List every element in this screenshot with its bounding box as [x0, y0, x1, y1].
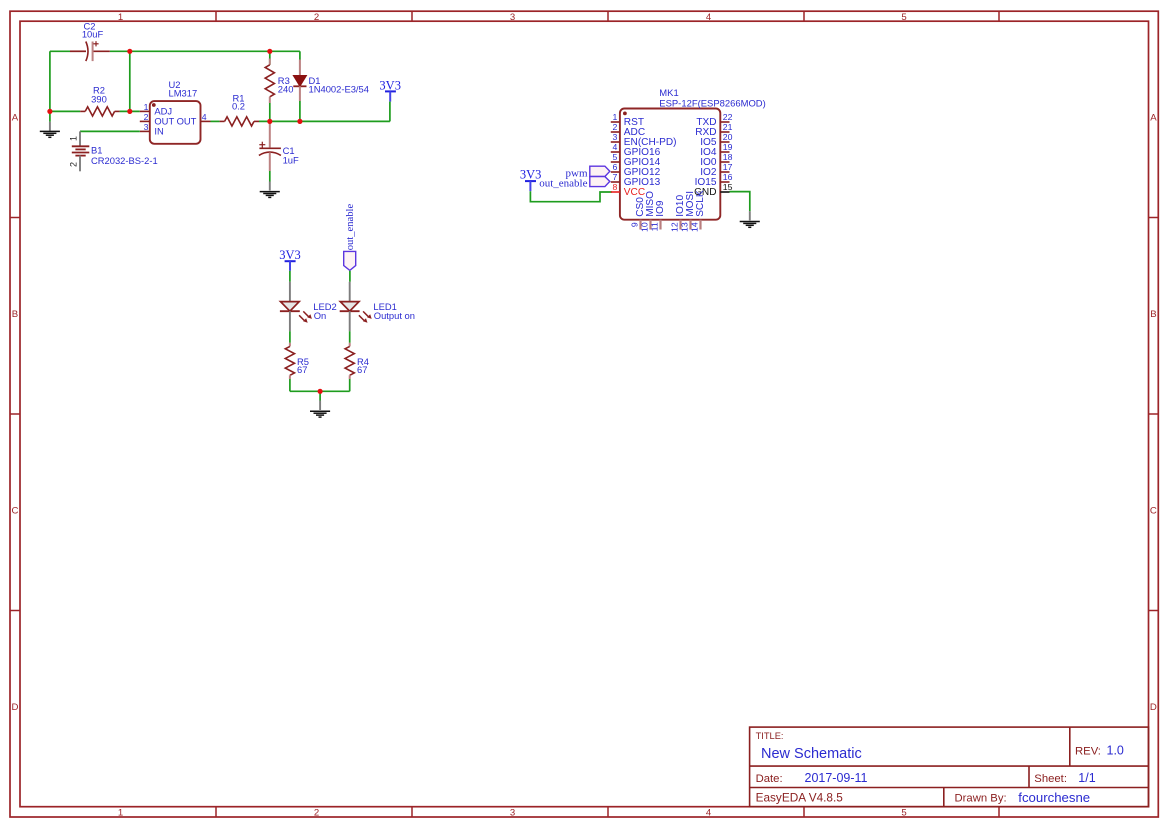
- svg-text:out_enable: out_enable: [345, 204, 356, 251]
- resistor R4: [345, 331, 369, 391]
- svg-text:19: 19: [723, 142, 733, 152]
- MK1 right pins 22-16: [720, 122, 729, 182]
- svg-text:TITLE:: TITLE:: [756, 731, 784, 741]
- MK1 bottom pin numbers: [630, 222, 700, 232]
- svg-text:B: B: [1150, 309, 1156, 320]
- svg-text:D: D: [1150, 702, 1157, 713]
- svg-text:2: 2: [314, 12, 319, 23]
- junction node C2-right / riser top: [127, 49, 132, 54]
- svg-text:4: 4: [202, 112, 207, 122]
- svg-text:6: 6: [612, 162, 617, 172]
- svg-text:2: 2: [69, 162, 79, 167]
- wire C2 right branch riser: [129, 51, 131, 111]
- svg-text:ESP-12F(ESP8266MOD): ESP-12F(ESP8266MOD): [659, 98, 765, 109]
- svg-text:1: 1: [612, 112, 617, 122]
- MK1 right pin names: [695, 117, 717, 188]
- svg-text:On: On: [314, 310, 327, 321]
- svg-text:3: 3: [612, 132, 617, 142]
- svg-text:22: 22: [723, 112, 733, 122]
- svg-text:390: 390: [91, 94, 107, 105]
- title block: [750, 727, 1149, 807]
- capacitor C1: [259, 121, 299, 181]
- MK1 left pin names: [624, 117, 677, 188]
- svg-text:15: 15: [723, 182, 733, 192]
- svg-text:1: 1: [69, 136, 79, 141]
- svg-text:1.0: 1.0: [1107, 744, 1124, 758]
- MK1 left pins 1-7: [611, 122, 620, 182]
- frame column numbers top: [118, 12, 907, 23]
- svg-text:C: C: [12, 506, 19, 517]
- svg-text:240: 240: [278, 84, 294, 95]
- svg-text:fcourchesne: fcourchesne: [1018, 790, 1090, 805]
- battery B1: [69, 131, 158, 171]
- svg-text:1N4002-E3/54: 1N4002-E3/54: [309, 84, 369, 95]
- MK1 left pin numbers: [612, 112, 617, 182]
- wire GND pin to ground: [730, 192, 750, 212]
- junction dot LED rail: [318, 389, 323, 394]
- wire R2 row: [50, 110, 80, 112]
- svg-text:D: D: [12, 702, 19, 713]
- junction node output / D1: [297, 119, 302, 124]
- ground (R2 left node): [40, 111, 60, 137]
- svg-text:2: 2: [144, 112, 149, 122]
- svg-text:12: 12: [670, 222, 680, 232]
- svg-text:SCLK: SCLK: [695, 190, 706, 217]
- wire LED bottom rail: [290, 390, 350, 392]
- svg-text:2: 2: [314, 807, 319, 818]
- svg-text:0.2: 0.2: [232, 101, 245, 112]
- junction node R3 top: [267, 49, 272, 54]
- svg-text:OUT: OUT: [177, 116, 197, 127]
- svg-text:10: 10: [640, 222, 650, 232]
- resistor R1: [220, 93, 259, 126]
- svg-text:Sheet:: Sheet:: [1034, 773, 1067, 785]
- svg-text:8: 8: [612, 182, 617, 192]
- svg-text:Date:: Date:: [756, 773, 783, 785]
- svg-text:2017-09-11: 2017-09-11: [805, 771, 868, 785]
- svg-text:LM317: LM317: [169, 87, 198, 98]
- wire left riser: [49, 51, 51, 111]
- svg-text:2: 2: [612, 122, 617, 132]
- svg-text:1/1: 1/1: [1078, 771, 1095, 785]
- MK1 pin 15 GND stub: [720, 191, 729, 193]
- net flag 3V3 (ESP): [520, 168, 542, 192]
- svg-text:20: 20: [723, 132, 733, 142]
- svg-text:10uF: 10uF: [82, 29, 104, 40]
- svg-text:7: 7: [612, 172, 617, 182]
- regulator U2 LM317: [140, 79, 211, 144]
- svg-text:3V3: 3V3: [520, 168, 542, 182]
- svg-text:67: 67: [297, 364, 307, 375]
- svg-text:5: 5: [901, 12, 906, 23]
- svg-text:1: 1: [144, 102, 149, 112]
- svg-text:21: 21: [723, 122, 733, 132]
- svg-text:3: 3: [510, 807, 515, 818]
- ground (LED rail): [310, 391, 330, 417]
- MK1 bottom pins 9-14: [641, 220, 701, 230]
- svg-text:IN: IN: [154, 126, 163, 137]
- svg-text:EasyEDA V4.8.5: EasyEDA V4.8.5: [756, 791, 844, 805]
- svg-text:out_enable: out_enable: [539, 177, 587, 189]
- capacitor C2: [70, 21, 110, 62]
- wire 3V3 to VCC pin: [530, 191, 612, 202]
- net port pwm: [566, 166, 610, 180]
- svg-text:4: 4: [706, 807, 712, 818]
- svg-text:5: 5: [612, 152, 617, 162]
- svg-text:9: 9: [630, 222, 640, 227]
- svg-text:17: 17: [723, 162, 733, 172]
- svg-text:18: 18: [723, 152, 733, 162]
- MK1 right pin numbers: [723, 112, 733, 182]
- svg-text:Drawn By:: Drawn By:: [955, 793, 1007, 805]
- resistor R2: [80, 85, 119, 117]
- svg-text:A: A: [12, 113, 19, 124]
- junction node R2 right / riser bottom: [127, 109, 132, 114]
- svg-text:REV:: REV:: [1075, 745, 1101, 757]
- resistor R5: [285, 331, 309, 391]
- svg-text:5: 5: [901, 807, 906, 818]
- junction node R2 left / ground: [47, 109, 52, 114]
- svg-text:4: 4: [706, 12, 712, 23]
- wire U2 output row: [211, 120, 220, 122]
- svg-text:C: C: [1150, 506, 1157, 517]
- svg-text:1: 1: [118, 807, 123, 818]
- svg-text:3: 3: [144, 122, 149, 132]
- svg-text:Output on: Output on: [374, 310, 415, 321]
- net flag 3V3 (LED2): [279, 248, 301, 282]
- svg-text:11: 11: [650, 222, 660, 231]
- net port out_enable (vertical): [344, 204, 356, 282]
- ground (C1): [260, 182, 280, 198]
- junction node output / R3-C1: [267, 119, 272, 124]
- net port out_enable (ESP): [539, 177, 610, 190]
- svg-text:3V3: 3V3: [279, 248, 301, 262]
- diode D1: [293, 51, 369, 121]
- LED1: [340, 282, 415, 331]
- svg-text:CR2032-BS-2-1: CR2032-BS-2-1: [91, 155, 158, 166]
- svg-text:3: 3: [510, 12, 515, 23]
- svg-text:1: 1: [118, 12, 123, 23]
- svg-text:VCC: VCC: [624, 187, 645, 198]
- IC MK1 ESP-12F body: [620, 88, 766, 220]
- svg-text:A: A: [1150, 113, 1157, 124]
- frame column numbers bottom: [118, 807, 907, 818]
- svg-text:14: 14: [690, 222, 700, 232]
- wire top net from left riser through C2 to D1 corner: [50, 50, 300, 52]
- frame row letters: [12, 113, 1158, 714]
- svg-text:B: B: [12, 309, 18, 320]
- svg-text:13: 13: [680, 222, 690, 232]
- MK1 pin 8 VCC stub: [611, 191, 620, 193]
- MK1 bottom pin names: [635, 190, 706, 217]
- net flag 3V3 (power out): [379, 79, 401, 122]
- ground (ESP): [740, 211, 760, 227]
- svg-text:4: 4: [612, 142, 617, 152]
- svg-text:IO9: IO9: [655, 200, 666, 217]
- resistor R3: [265, 51, 293, 121]
- svg-text:67: 67: [357, 364, 367, 375]
- svg-text:New Schematic: New Schematic: [761, 746, 862, 762]
- LED2: [280, 282, 337, 331]
- svg-text:16: 16: [723, 172, 733, 182]
- svg-text:1uF: 1uF: [283, 155, 299, 166]
